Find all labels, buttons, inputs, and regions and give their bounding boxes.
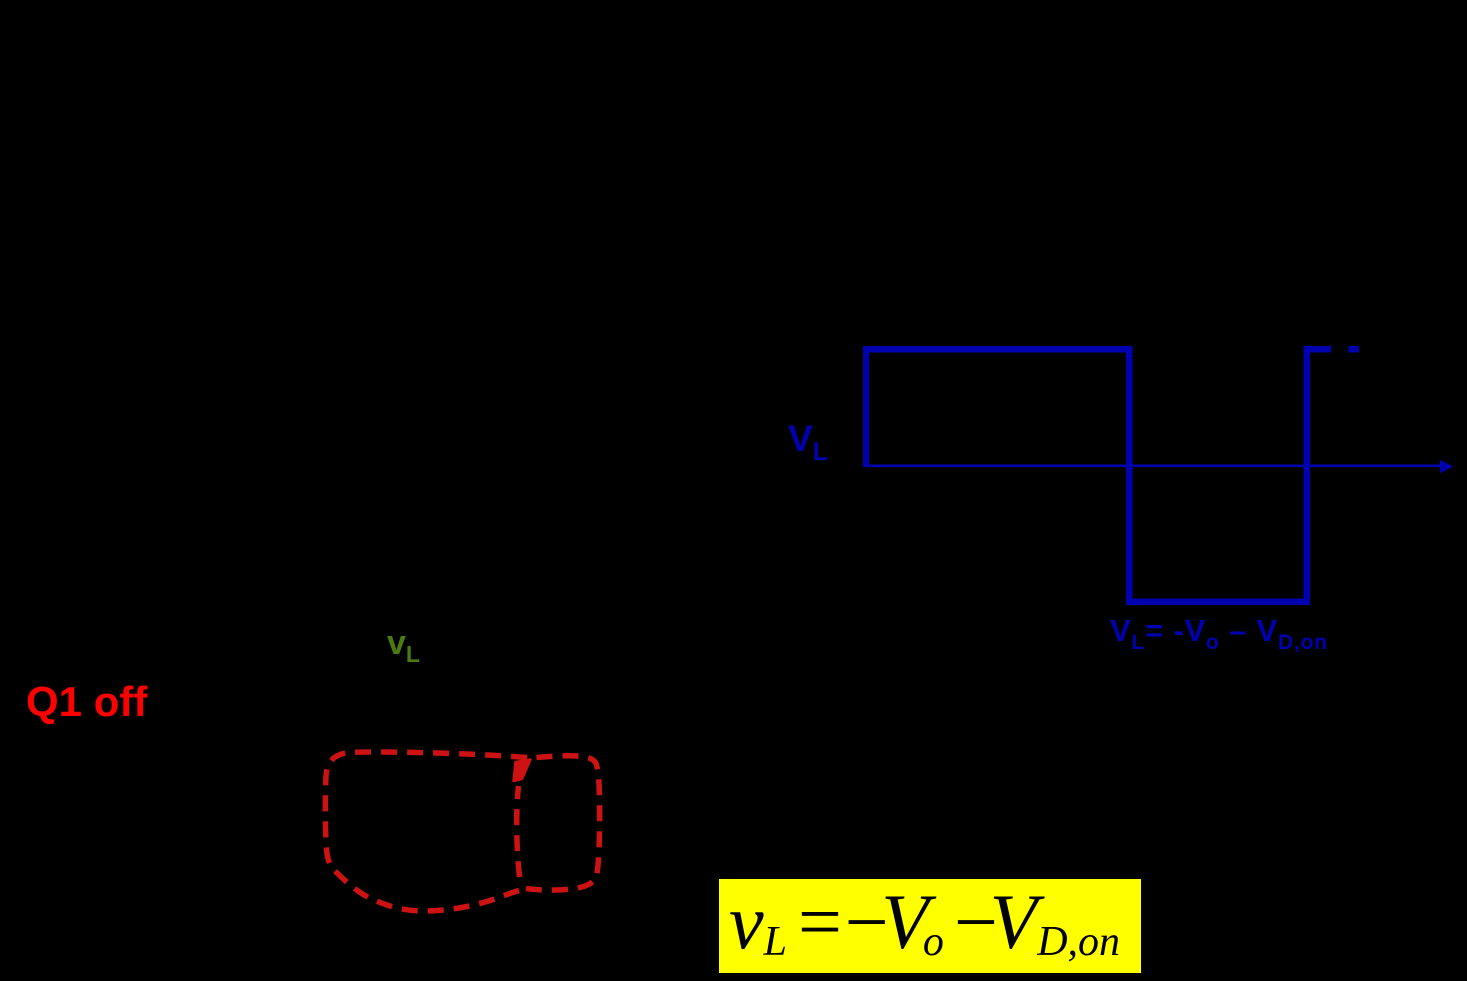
big loop xyxy=(325,752,527,911)
waveform falling edge xyxy=(1126,346,1133,605)
equation vL = -Vo - VD,on (black italic serif in yellow box) xyxy=(729,883,1120,963)
label V_L (blue, left of plot) xyxy=(788,420,828,465)
axis (time axis with arrow) xyxy=(863,460,1453,473)
waveform bottom rail (-Vo - VD,on level) xyxy=(1126,599,1310,606)
red freehand dashed loop (pen annotation) xyxy=(325,752,599,911)
waveform left rising edge xyxy=(863,346,869,465)
dashed continuation of top rail xyxy=(1304,346,1332,353)
pen-stroke arrowhead at start of loop xyxy=(514,760,531,782)
waveform second rising edge xyxy=(1304,347,1311,606)
small loop xyxy=(526,756,600,890)
label VL = -Vo - VD,on (blue, under bottom rail) xyxy=(1110,615,1328,653)
inner shared edge of loops xyxy=(517,786,520,877)
waveform top rail (VDD - Vo level) xyxy=(863,346,1132,353)
yellow equation box xyxy=(719,879,1141,973)
label v_L (green, node annotation) xyxy=(387,626,420,666)
label Q1 off (red) xyxy=(26,681,147,723)
